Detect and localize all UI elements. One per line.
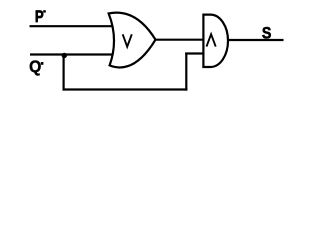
label V inside or-gate bbox=[123, 34, 132, 46]
artifact speck near P bbox=[43, 10, 46, 12]
wire bottom horizontal bbox=[63, 88, 188, 90]
or-gate body bbox=[109, 13, 156, 68]
wire Q input bbox=[30, 53, 116, 55]
artifact speck near Q bbox=[41, 62, 44, 65]
svg-text:S: S bbox=[262, 24, 272, 42]
label AND wedge inside and-gate bbox=[207, 34, 216, 46]
and-gate body bbox=[203, 15, 228, 67]
svg-text:P: P bbox=[35, 8, 44, 27]
wire OR output to AND input bbox=[154, 39, 204, 41]
wire P input bbox=[30, 25, 117, 27]
wire S output bbox=[227, 39, 284, 41]
wire AND gate lower input bbox=[185, 52, 204, 54]
wire right vertical up bbox=[185, 53, 187, 91]
node junction on Q wire bbox=[62, 53, 67, 58]
wire junction down bbox=[62, 55, 64, 91]
svg-text:Q: Q bbox=[29, 57, 41, 76]
